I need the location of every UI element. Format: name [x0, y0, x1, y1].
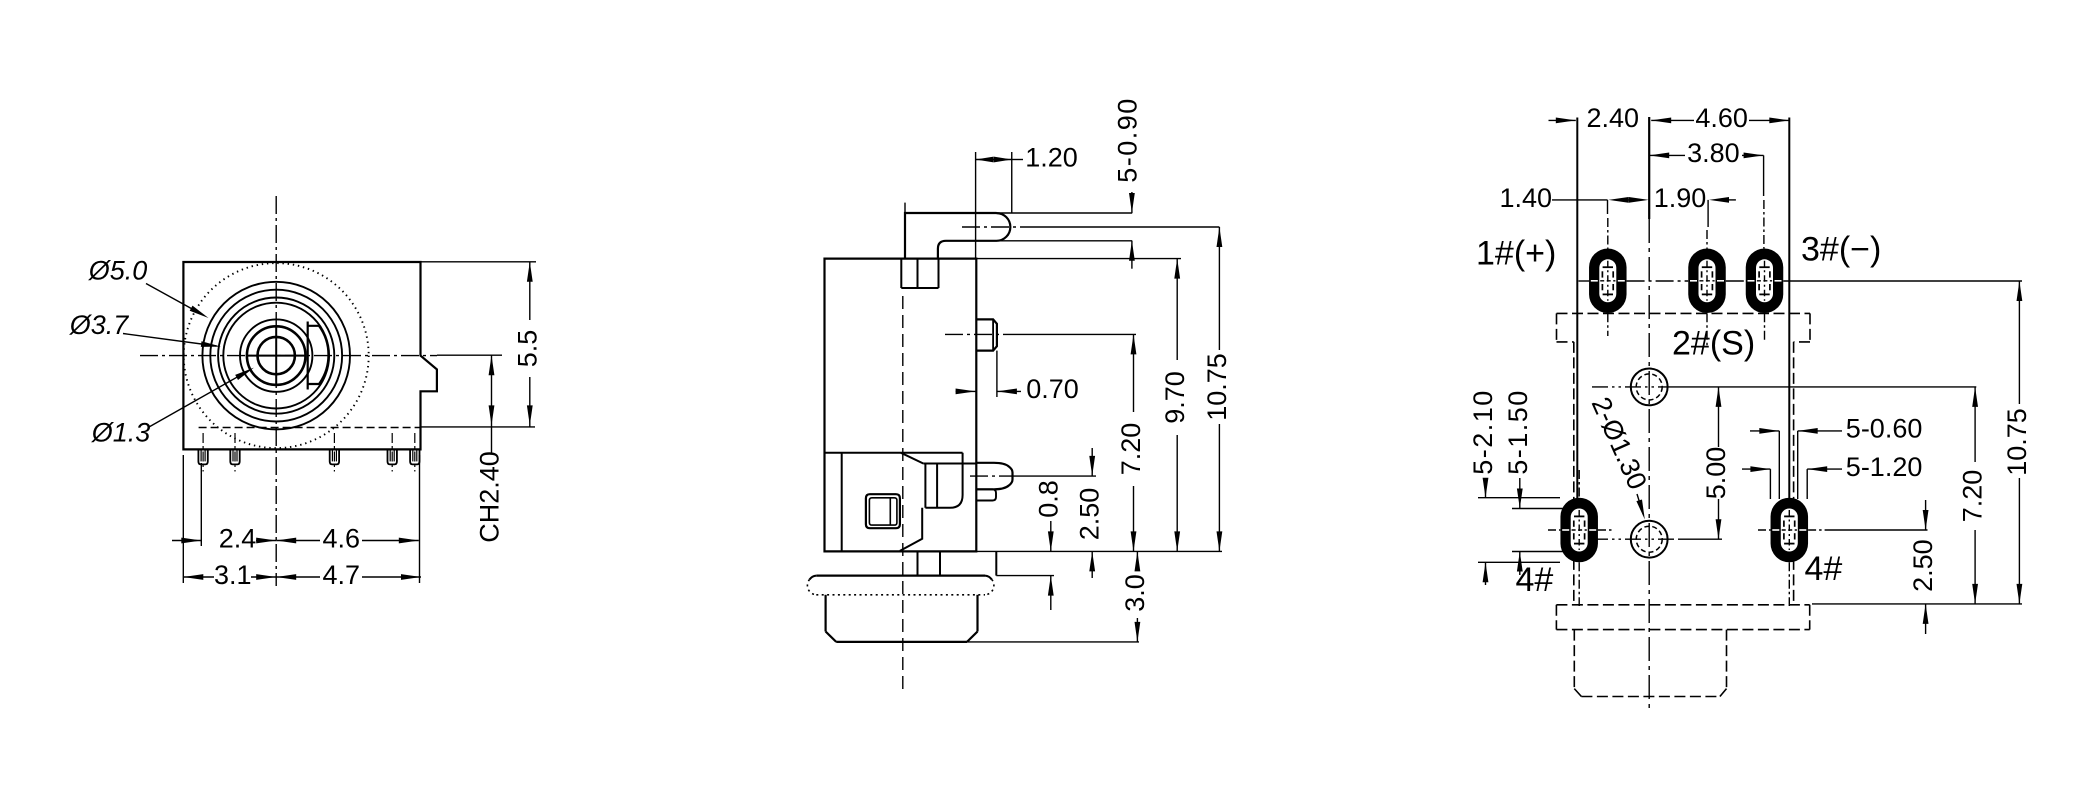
left view: seam extension line to dimension 5.5 / CH2.40	[421, 426, 536, 428]
middle view: top lug left edge overshoot tick	[904, 203, 906, 213]
right view: pad row centerline solid extension to 10.75	[1783, 280, 2022, 282]
svg-text:1.90: 1.90	[1654, 183, 1707, 213]
left view: circle dia 2.4	[240, 319, 312, 391]
right view: dashed flange outline	[1556, 604, 1809, 606]
pad 4# bottom left: plated slot pad	[1560, 498, 1598, 563]
svg-text:0.70: 0.70	[1026, 374, 1079, 404]
svg-text:1.40: 1.40	[1500, 183, 1553, 213]
left view: dimension 2.4	[172, 540, 201, 542]
left view: pin 2 bottom terminal	[230, 449, 239, 464]
svg-text:0.8: 0.8	[1034, 480, 1064, 518]
right view: top pad row centerline	[1579, 280, 1590, 282]
svg-text:Ø3.7: Ø3.7	[69, 310, 130, 340]
left view: dimension 5.5	[529, 262, 531, 320]
svg-text:1#(+): 1#(+)	[1476, 234, 1556, 272]
right view: pad 4 left vertical centerline	[1578, 470, 1580, 498]
right view: pin tail line right into pad 4	[1788, 118, 1790, 501]
middle view: extension lines right side	[976, 258, 1181, 260]
middle view: bracket chamfer piece	[900, 508, 922, 551]
middle view: neck below body	[917, 551, 919, 575]
left view: horizontal centerline solid extension right	[437, 354, 502, 356]
middle view: dimension 9.70	[1174, 259, 1180, 279]
svg-text:3.0: 3.0	[1120, 574, 1150, 612]
middle view: upper pin extension line for 0.70	[996, 351, 998, 397]
middle view: dimension 7.20	[1131, 334, 1137, 354]
svg-text:3.1: 3.1	[214, 560, 252, 590]
svg-text:5.00: 5.00	[1701, 447, 1731, 500]
svg-text:10.75: 10.75	[2002, 408, 2032, 476]
right view: lower through hole dia 1.30	[1631, 521, 1668, 558]
left view: circle dia 4.3	[210, 290, 342, 422]
right view: pad 4 right vertical centerline	[1788, 562, 1790, 606]
middle view: dimension 1.20	[976, 157, 994, 163]
svg-text:2.4: 2.4	[219, 523, 257, 553]
middle view: dimension 3.0	[1135, 551, 1141, 571]
left view: dotted mounting circle dia 6	[184, 263, 369, 448]
right view: bottom pad left row centerline	[1548, 529, 1560, 531]
svg-text:5-1.20: 5-1.20	[1846, 452, 1923, 482]
middle view: latch window inner	[869, 498, 897, 525]
right view: dashed bushing outline	[1573, 630, 1575, 689]
middle view: dimension 0.70	[956, 390, 976, 392]
right view: upper hole centerline solid extension to 7.20	[1670, 386, 1976, 388]
middle view: lower bullet pin	[976, 463, 1013, 490]
right view: bottom pad right row centerline	[1758, 529, 1771, 531]
right view: dimension 3.80	[1649, 153, 1669, 159]
left view: vertical centerline	[275, 196, 277, 586]
right view: dimension 7.20	[1972, 387, 1978, 407]
pad 3# top right: plated slot pad	[1746, 249, 1784, 313]
svg-text:2.50: 2.50	[1075, 488, 1105, 541]
middle view: top lug bottom edge extension	[997, 240, 1133, 242]
right view: dimension 10.75	[2017, 281, 2023, 301]
svg-text:4.6: 4.6	[323, 523, 361, 553]
middle view: flange right arc	[985, 576, 992, 580]
svg-text:4.60: 4.60	[1695, 103, 1748, 133]
right view: dimension 5-0.60	[1750, 430, 1779, 432]
middle view: extension lines for 1.20	[975, 152, 977, 259]
left view: internal seam hidden line	[199, 427, 421, 429]
middle view: lug root lines inside body	[900, 259, 902, 288]
right view: extension lines for 5-1.20	[1769, 469, 1771, 499]
middle view: bushing bottom extension line	[967, 641, 1139, 643]
right view: extension lines for 5-0.60	[1778, 431, 1780, 499]
middle view: dimension 10.75	[1217, 227, 1223, 247]
left view: center cross vertical	[275, 326, 277, 386]
svg-text:4#: 4#	[1805, 550, 1843, 588]
left view: center cross horizontal	[246, 355, 306, 357]
pad 4# bottom right: plated slot pad	[1771, 498, 1809, 563]
middle view: bushing outline	[824, 595, 826, 632]
right view: upper hole horizontal centerline	[1592, 386, 1670, 388]
middle view: flange left arc	[810, 576, 817, 580]
right view: pad 3 vertical centerline	[1763, 155, 1765, 196]
svg-text:5-0.60: 5-0.60	[1846, 414, 1923, 444]
svg-text:Ø5.0: Ø5.0	[88, 256, 148, 286]
middle view: top lug centerline	[962, 226, 1025, 228]
svg-text:4.7: 4.7	[323, 560, 361, 590]
svg-text:2.50: 2.50	[1908, 539, 1938, 592]
svg-text:2.40: 2.40	[1587, 103, 1640, 133]
left view: pin 3 bottom terminal	[330, 449, 339, 464]
pad 1# top left: plated slot pad	[1589, 249, 1627, 313]
right view: main vertical axis centerline	[1648, 219, 1650, 712]
left view: extension line top right for 5.5	[421, 261, 537, 263]
svg-text:7.20: 7.20	[1116, 423, 1146, 476]
right view: dashed body outline top	[1557, 312, 1811, 314]
middle view: top lug top edge extension	[997, 212, 1133, 214]
left view: pin 1 bottom terminal	[198, 449, 207, 464]
right view: pad 2 vertical centerline	[1706, 230, 1708, 249]
right view: pad 1 vertical centerline	[1607, 218, 1609, 249]
middle view: vertical axis centerline	[902, 296, 904, 694]
right view: upper through hole dia 1.30	[1631, 369, 1668, 406]
left view: circle dia 3.7	[218, 298, 334, 414]
middle view: lower pin step	[976, 489, 997, 500]
left view: contact tab arc with steps	[308, 326, 329, 384]
svg-text:2#(S): 2#(S)	[1672, 324, 1755, 362]
left view: dimension 3.1	[183, 576, 214, 578]
svg-text:1.20: 1.20	[1025, 142, 1078, 172]
left view: pin 4 bottom terminal	[388, 449, 397, 464]
pad 2# top middle: plated slot pad	[1688, 249, 1726, 313]
right view: extension lines for 5-1.50	[1512, 508, 1570, 510]
right view: dimension 5.00	[1716, 387, 1722, 407]
right view: dimension 5-1.20	[1742, 468, 1770, 470]
right view: pin tail line left into pad 4	[1576, 118, 1578, 501]
left view: dimension 4.7	[276, 576, 320, 578]
middle view: lower pin centerline	[970, 475, 1016, 477]
middle view: bracket inner vertical left	[841, 453, 843, 552]
left view: extension lines bottom dimensions	[182, 455, 184, 583]
svg-text:2-Ø1.30: 2-Ø1.30	[1586, 393, 1653, 494]
middle view: side bracket wedge diagonal	[901, 453, 923, 464]
middle view: bracket curve to terminal	[925, 453, 962, 508]
middle view: latch window outer	[866, 494, 900, 528]
svg-text:5-2.10: 5-2.10	[1468, 389, 1498, 475]
middle view: body outline	[825, 259, 977, 552]
svg-text:7.20: 7.20	[1958, 470, 1988, 523]
svg-text:5-1.50: 5-1.50	[1503, 389, 1533, 475]
left view: dimension CH2.40	[491, 355, 493, 427]
svg-text:CH2.40: CH2.40	[474, 451, 504, 543]
left view: pin 5 bottom terminal	[410, 449, 419, 464]
right view: dimension 2.40	[1549, 119, 1576, 121]
right view: main vertical axis bold segment	[1648, 117, 1650, 219]
left view: horizontal centerline	[140, 355, 437, 357]
right view: bottom pad centerline solid extension to 2.50	[1830, 529, 1928, 531]
middle view: top lug pin outline	[905, 213, 997, 259]
svg-text:Ø1.3: Ø1.3	[91, 418, 151, 448]
left view: dimension 4.6	[276, 540, 320, 542]
middle view: dimension 2.50	[1091, 448, 1093, 476]
left view: circle dia 1.9 bold	[247, 326, 306, 385]
middle view: upper side pin centerline	[945, 333, 1005, 335]
middle view: bracket verticals	[924, 464, 926, 508]
svg-text:10.75: 10.75	[1202, 353, 1232, 421]
svg-text:5.5: 5.5	[513, 330, 543, 368]
left view: circle dia 5.0 outer	[202, 282, 350, 430]
svg-text:3.80: 3.80	[1687, 138, 1740, 168]
right view: dashed body outline right tab	[1809, 313, 1811, 342]
middle view: upper side pin	[976, 319, 997, 350]
right view: lower hole horizontal centerline	[1592, 538, 1680, 540]
svg-text:3#(−): 3#(−)	[1801, 230, 1881, 268]
svg-text:9.70: 9.70	[1160, 371, 1190, 424]
left view: contact tab chord line	[307, 322, 309, 390]
left view: circle dia 3.5	[223, 303, 329, 409]
left view: circle dia 1.3 pin hole bold	[258, 337, 295, 374]
right view: dashed body outline left tab	[1556, 313, 1558, 342]
middle view: flange washer top	[816, 574, 985, 576]
middle view: side bracket lower edge	[923, 463, 975, 465]
right view: dimension 4.60	[1651, 118, 1671, 124]
right view: extension lines for 5-2.10	[1478, 497, 1560, 499]
svg-text:5-0.90: 5-0.90	[1113, 97, 1143, 183]
left view: body outline with right-side key notch	[183, 262, 437, 449]
middle view: side bracket upper edge	[825, 452, 963, 454]
right view: dimension 2.50	[1925, 500, 1927, 530]
right view: flange top solid extension line	[1812, 603, 2022, 605]
right view: pad1 extension line for 1.40	[1607, 200, 1609, 214]
middle view: flange bottom dotted	[816, 594, 985, 596]
